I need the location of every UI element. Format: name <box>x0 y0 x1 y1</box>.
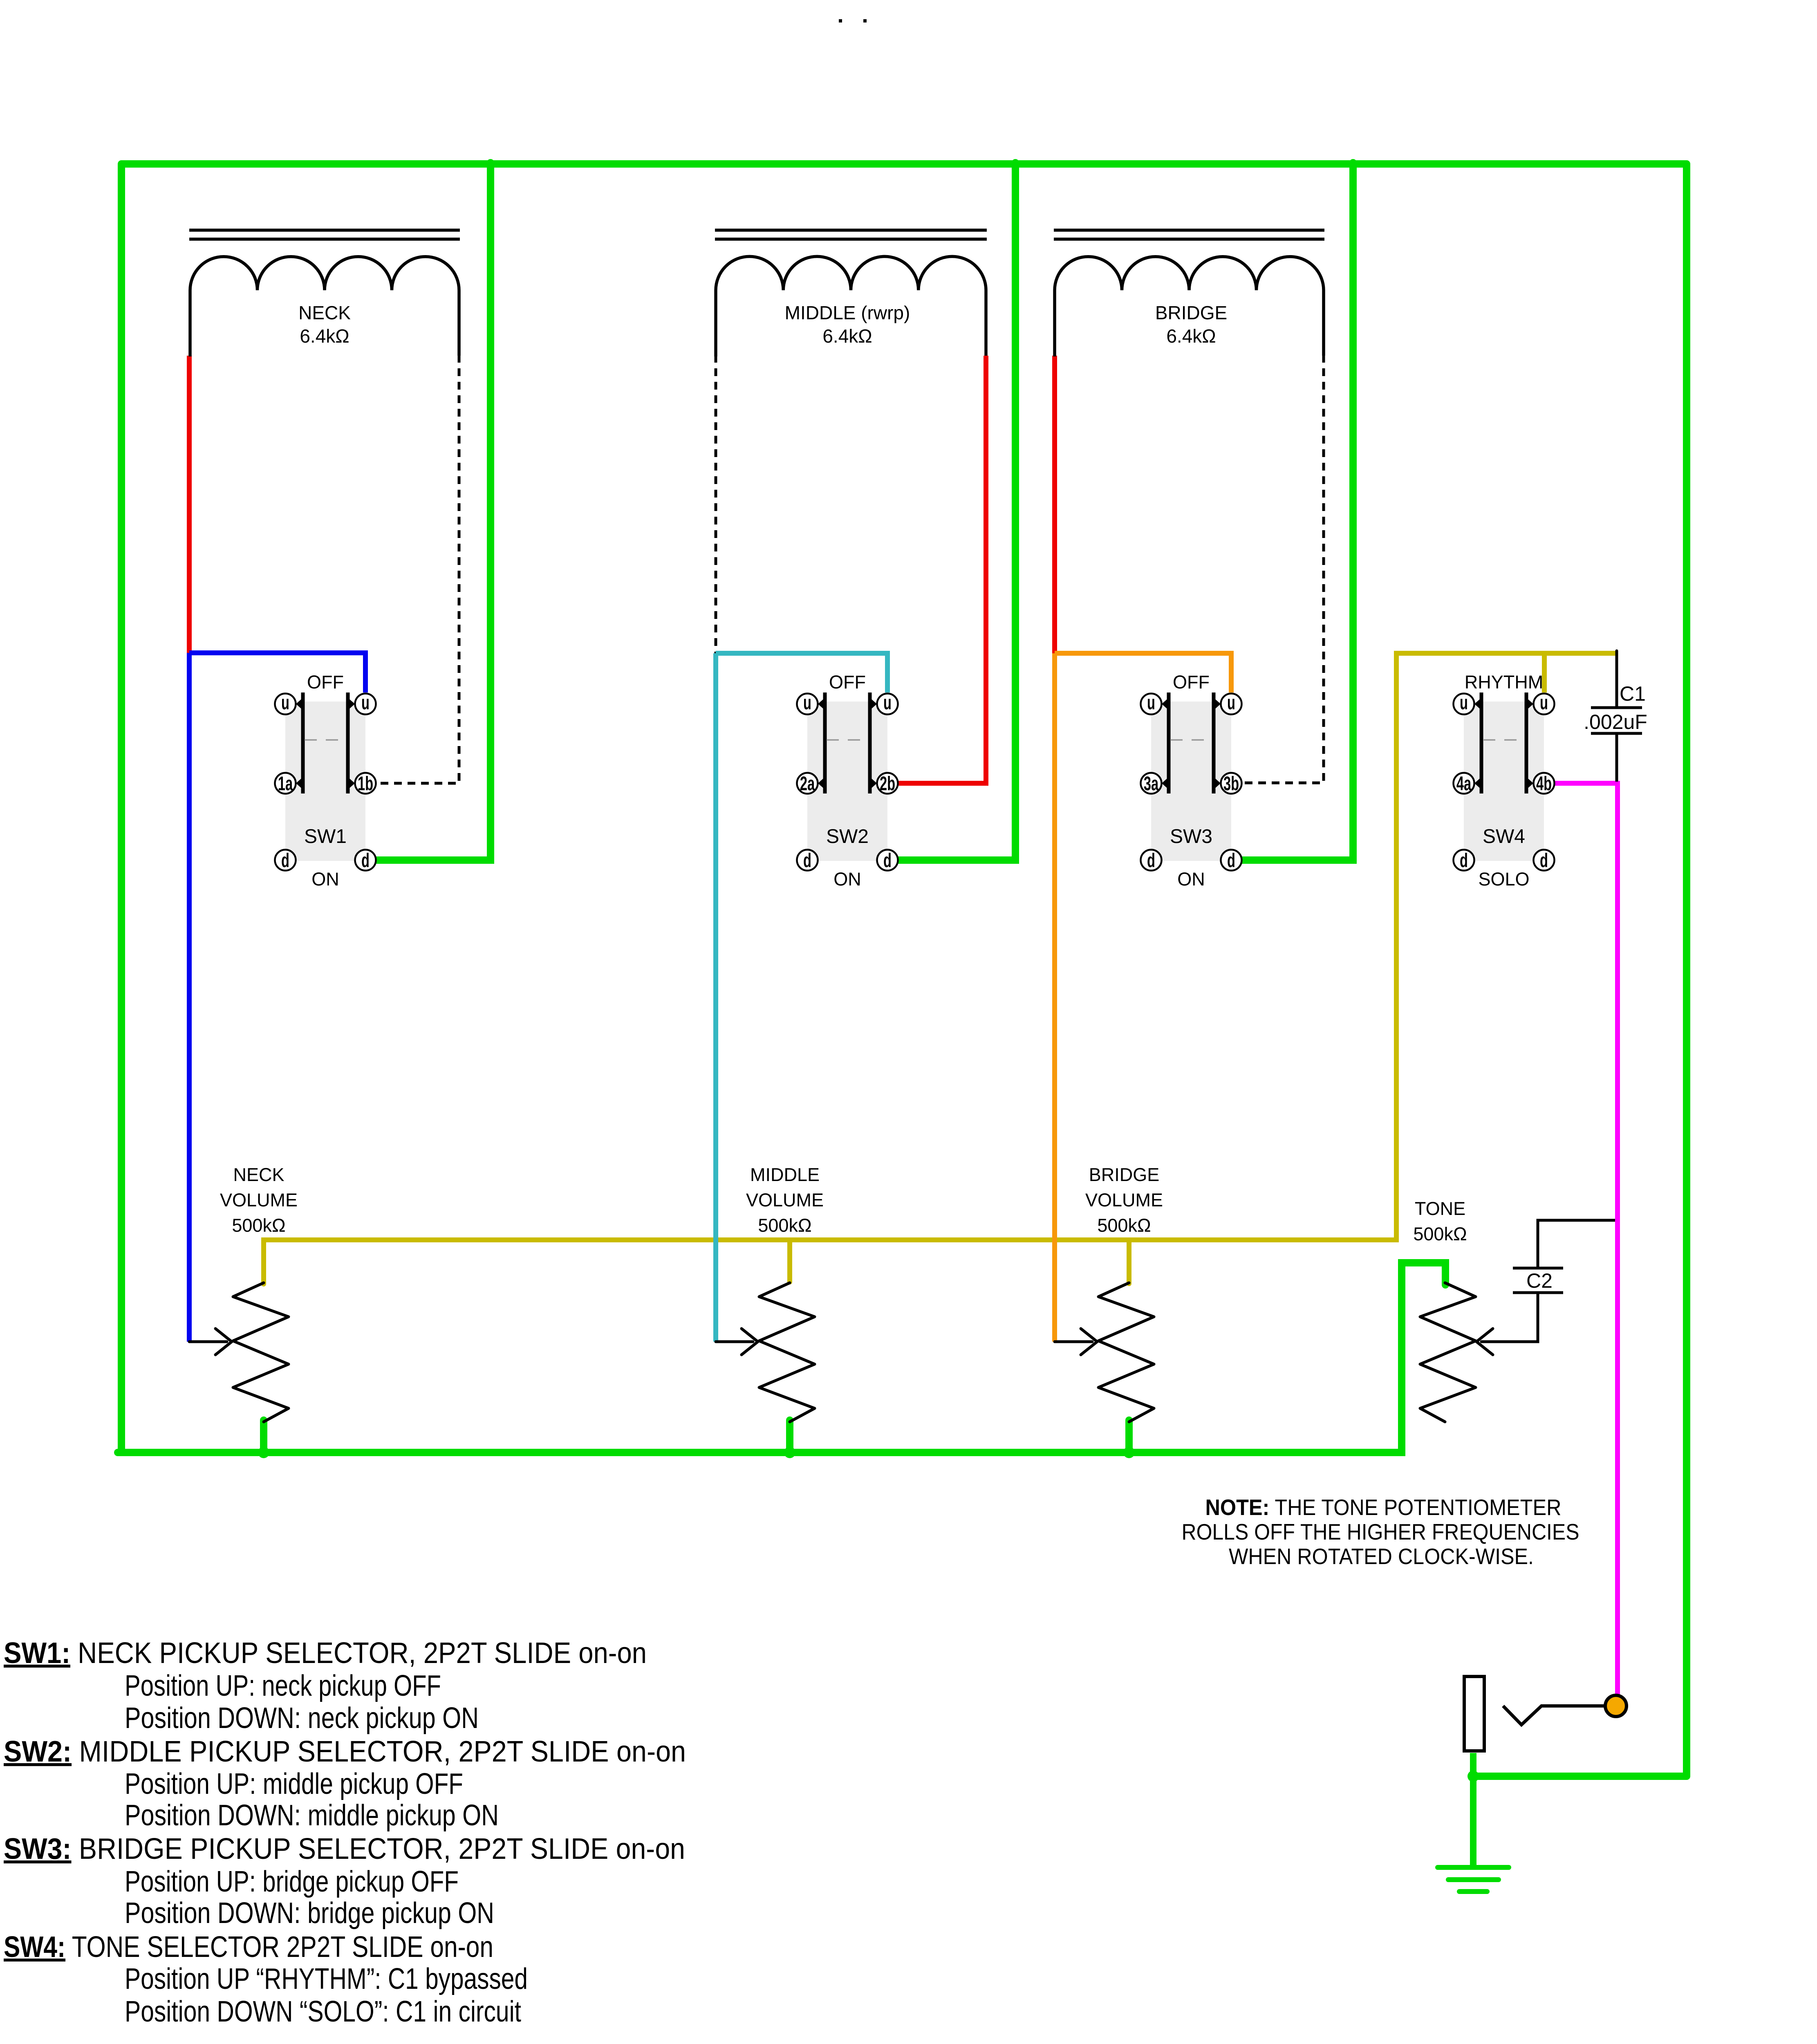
switch SW1 pin d <box>275 850 296 871</box>
switch SW3 body <box>1151 702 1231 861</box>
svg-text:VOLUME: VOLUME <box>1085 1190 1163 1210</box>
svg-text:RHYTHM: RHYTHM <box>1465 672 1543 693</box>
svg-text:500kΩ: 500kΩ <box>758 1215 811 1236</box>
wire: green from SW2 pin d to top bus <box>896 163 1015 860</box>
svg-text:Position UP: middle pickup OFF: Position UP: middle pickup OFF <box>125 1768 463 1800</box>
svg-text:1b: 1b <box>358 773 373 795</box>
switch SW2 pin u <box>797 694 818 715</box>
switch SW3 pin 3a <box>1141 773 1162 794</box>
switch SW3 gang link <box>1170 739 1212 741</box>
svg-text:1a: 1a <box>278 773 293 795</box>
svg-text:d: d <box>883 849 892 872</box>
switch SW4 pin 4a <box>1454 773 1474 794</box>
switch SW2 contact arrows <box>818 697 877 790</box>
switch SW4 pole bars <box>1481 693 1526 793</box>
svg-text:NECK: NECK <box>233 1164 284 1185</box>
potentiometer tone 500k <box>1420 1283 1476 1422</box>
svg-text:Position DOWN: bridge pickup O: Position DOWN: bridge pickup ON <box>125 1897 494 1930</box>
svg-text:ROLLS OFF THE HIGHER FREQUENCI: ROLLS OFF THE HIGHER FREQUENCIES <box>1182 1519 1580 1544</box>
svg-text:3b: 3b <box>1223 773 1239 795</box>
svg-text:u: u <box>1460 692 1468 714</box>
svg-text:SW3: BRIDGE PICKUP SELECTOR, 2: SW3: BRIDGE PICKUP SELECTOR, 2P2T SLIDE … <box>4 1833 685 1865</box>
svg-text:SW2: MIDDLE PICKUP SELECTOR, 2: SW2: MIDDLE PICKUP SELECTOR, 2P2T SLIDE … <box>4 1735 686 1768</box>
svg-text:2b: 2b <box>880 773 895 795</box>
svg-text:C2: C2 <box>1526 1269 1553 1292</box>
switch SW1 pole bars <box>303 693 348 793</box>
wire: green neck volume pot bottom to ground bus <box>260 1420 267 1452</box>
svg-text:C1: C1 <box>1620 682 1646 705</box>
switch SW3 pin 3b <box>1221 773 1242 794</box>
svg-text:u: u <box>803 692 811 714</box>
svg-text:ON: ON <box>1177 869 1205 890</box>
wire: green bottom bus to tone pot top <box>118 1263 1445 1452</box>
switch SW4 pin 4b <box>1534 773 1555 794</box>
wire: dashed middle pickup lead <box>715 355 717 656</box>
switch SW3 contact arrows <box>1162 697 1221 790</box>
switch SW1 pin 1b <box>355 773 376 794</box>
switch SW3 pin d <box>1141 850 1162 871</box>
svg-text:4b: 4b <box>1536 773 1552 795</box>
wire: cyan middle hot to SW2 pin u right <box>716 653 887 693</box>
svg-text:ON: ON <box>833 869 861 890</box>
svg-text:SOLO: SOLO <box>1478 869 1529 890</box>
wire: blue neck hot to SW1 pin u right <box>189 653 365 693</box>
svg-text:500kΩ: 500kΩ <box>1413 1224 1467 1244</box>
svg-text:OFF: OFF <box>1173 672 1210 693</box>
svg-text:Position UP: neck pickup OFF: Position UP: neck pickup OFF <box>125 1670 441 1702</box>
svg-text:6.4kΩ: 6.4kΩ <box>300 325 349 347</box>
wire: dark-yellow stub to middle volume pot top <box>787 1240 792 1282</box>
svg-text:d: d <box>803 849 811 872</box>
potentiometer middle volume 500k <box>759 1283 815 1422</box>
switch SW2 pin 2a <box>797 773 818 794</box>
svg-text:OFF: OFF <box>307 672 344 693</box>
svg-text:WHEN ROTATED CLOCK-WISE.: WHEN ROTATED CLOCK-WISE. <box>1229 1544 1534 1569</box>
svg-text:MIDDLE: MIDDLE <box>750 1164 820 1185</box>
ground symbol <box>1438 1867 1509 1892</box>
svg-text:VOLUME: VOLUME <box>746 1190 824 1210</box>
switch SW2 pin d <box>797 850 818 871</box>
switch SW1 body <box>285 702 365 861</box>
svg-text:Position UP: bridge pickup OFF: Position UP: bridge pickup OFF <box>125 1865 459 1898</box>
wire: green jack sleeve to ground <box>1470 1753 1476 1867</box>
switch SW2 pin u <box>877 694 898 715</box>
junction: neck pot ground <box>258 1447 269 1458</box>
switch SW4 pin u <box>1454 694 1474 715</box>
svg-text:NOTE: THE TONE POTENTIOMETER: NOTE: THE TONE POTENTIOMETER <box>1205 1495 1562 1520</box>
switch SW2 pin 2b <box>877 773 898 794</box>
svg-text:SW4: TONE SELECTOR 2P2T SLIDE: SW4: TONE SELECTOR 2P2T SLIDE on-on <box>4 1931 493 1963</box>
svg-text:6.4kΩ: 6.4kΩ <box>1166 325 1216 347</box>
svg-text:u: u <box>1227 692 1235 714</box>
svg-text:OFF: OFF <box>829 672 866 693</box>
svg-text:Position UP “RHYTHM”: C1 bypas: Position UP “RHYTHM”: C1 bypassed <box>125 1963 528 1995</box>
wire: dark-yellow hot bus from C1 top across volume pot tops <box>264 653 1615 1284</box>
potentiometer bridge volume 500k <box>1098 1283 1154 1422</box>
svg-text:u: u <box>883 692 892 714</box>
svg-text:d: d <box>281 849 289 872</box>
svg-text:d: d <box>1147 849 1155 872</box>
wire: dashed bridge pickup return to SW3 pin 3b <box>1242 355 1324 783</box>
wire: orange bridge hot to SW3 pin u right <box>1055 653 1231 693</box>
tone 500k wiper arrow <box>1476 1329 1538 1355</box>
output jack tip terminal <box>1605 1695 1627 1717</box>
switch SW4 gang link <box>1483 739 1525 741</box>
svg-text:NECK: NECK <box>298 302 351 323</box>
wire: red bridge pickup lead <box>1052 356 1057 653</box>
svg-text:SW3: SW3 <box>1170 826 1212 847</box>
svg-text:2a: 2a <box>800 773 815 795</box>
svg-text:500kΩ: 500kΩ <box>1097 1215 1151 1236</box>
svg-text:Position DOWN “SOLO”: C1 in ci: Position DOWN “SOLO”: C1 in circuit <box>125 1995 521 2028</box>
switch SW3 pin u <box>1221 694 1242 715</box>
capacitor C1 .002uF <box>1591 651 1642 782</box>
wire: dark-yellow stub to bridge volume pot top <box>1127 1240 1131 1284</box>
svg-text:VOLUME: VOLUME <box>220 1190 298 1210</box>
switch SW4 pin u <box>1534 694 1555 715</box>
middle volume 500k wiper arrow <box>716 1329 758 1355</box>
svg-text:ON: ON <box>311 869 339 890</box>
pickup middle MIDDLE (rwrp) 6.4k <box>715 230 987 356</box>
svg-text:SW4: SW4 <box>1483 826 1525 847</box>
wire: dashed neck pickup return to SW1 pin 1b <box>376 355 459 783</box>
switch SW1 gang link <box>305 739 346 741</box>
wire: dark-yellow branch to SW4 pin u right <box>1542 653 1547 693</box>
bridge volume 500k wiper arrow <box>1055 1329 1097 1355</box>
svg-text:d: d <box>1540 849 1548 872</box>
svg-text:MIDDLE (rwrp): MIDDLE (rwrp) <box>785 302 910 323</box>
svg-text:u: u <box>361 692 370 714</box>
switch SW3 pin u <box>1141 694 1162 715</box>
wire: orange bridge hot down to bridge volume wiper <box>1052 653 1057 1342</box>
svg-text:6.4kΩ: 6.4kΩ <box>822 325 872 347</box>
registration dot right <box>863 19 867 22</box>
svg-text:d: d <box>1227 849 1235 872</box>
svg-text:u: u <box>1147 692 1155 714</box>
switch SW3 pole bars <box>1169 693 1214 793</box>
svg-text:3a: 3a <box>1144 773 1159 795</box>
potentiometer neck volume 500k <box>233 1283 289 1422</box>
svg-text:u: u <box>1540 692 1548 714</box>
svg-text:u: u <box>281 692 289 714</box>
capacitor C2 <box>1502 1220 1615 1342</box>
svg-text:.002uF: .002uF <box>1584 710 1647 733</box>
switch SW4 pin d <box>1454 850 1474 871</box>
wire: green bridge volume pot bottom to ground bus <box>1125 1420 1133 1452</box>
svg-text:500kΩ: 500kΩ <box>232 1215 285 1236</box>
wire: green from SW1 pin d to top bus <box>374 163 491 860</box>
svg-text:Position DOWN: neck pickup ON: Position DOWN: neck pickup ON <box>125 1702 479 1735</box>
svg-text:BRIDGE: BRIDGE <box>1155 302 1227 323</box>
switch SW1 contact arrows <box>296 697 355 790</box>
pickup neck NECK 6.4k <box>189 230 460 356</box>
switch SW1 pin u <box>275 694 296 715</box>
svg-text:BRIDGE: BRIDGE <box>1089 1164 1160 1185</box>
switch SW1 pin d <box>355 850 376 871</box>
switch SW4 pin d <box>1534 850 1555 871</box>
wire: magenta SW4 pin 4b to output jack tip <box>1555 783 1618 1706</box>
wire: red neck pickup lead <box>187 356 192 653</box>
switch SW2 gang link <box>827 739 868 741</box>
svg-text:Position DOWN: middle pickup O: Position DOWN: middle pickup ON <box>125 1799 499 1832</box>
svg-text:SW1: SW1 <box>304 826 347 847</box>
neck volume 500k wiper arrow <box>189 1329 232 1355</box>
svg-text:SW2: SW2 <box>826 826 869 847</box>
svg-text:d: d <box>361 849 370 872</box>
wire: cyan middle hot down to middle volume wiper <box>713 653 718 1342</box>
svg-text:4a: 4a <box>1456 773 1472 795</box>
switch SW4 contact arrows <box>1474 697 1533 790</box>
registration dot left <box>839 19 842 22</box>
svg-text:TONE: TONE <box>1415 1198 1465 1219</box>
wire: red middle pickup return to SW2 pin 2b <box>898 356 986 783</box>
junction: middle pot ground <box>784 1447 795 1458</box>
wire: green middle volume pot bottom to ground bus <box>786 1420 793 1452</box>
svg-text:SW1: NECK PICKUP SELECTOR, 2P2: SW1: NECK PICKUP SELECTOR, 2P2T SLIDE on… <box>4 1637 647 1670</box>
switch SW2 pole bars <box>825 693 870 793</box>
switch SW4 body <box>1464 702 1544 861</box>
junction: bridge pot ground <box>1123 1447 1135 1458</box>
output jack tip contact <box>1503 1706 1606 1725</box>
switch SW2 body <box>807 702 887 861</box>
wire: blue neck hot down to neck volume wiper <box>187 653 192 1342</box>
switch SW2 pin d <box>877 850 898 871</box>
wire: green from SW3 pin d to top bus <box>1240 163 1353 860</box>
output jack body <box>1464 1676 1484 1751</box>
wire: green ground bus outer border (left, top, right, jack run) <box>121 164 1687 1776</box>
switch SW3 pin d <box>1221 850 1242 871</box>
svg-text:d: d <box>1460 849 1468 872</box>
switch SW1 pin u <box>355 694 376 715</box>
junction: jack sleeve / border / ground <box>1467 1771 1479 1782</box>
switch SW1 pin 1a <box>275 773 296 794</box>
pickup bridge BRIDGE 6.4k <box>1054 230 1324 356</box>
